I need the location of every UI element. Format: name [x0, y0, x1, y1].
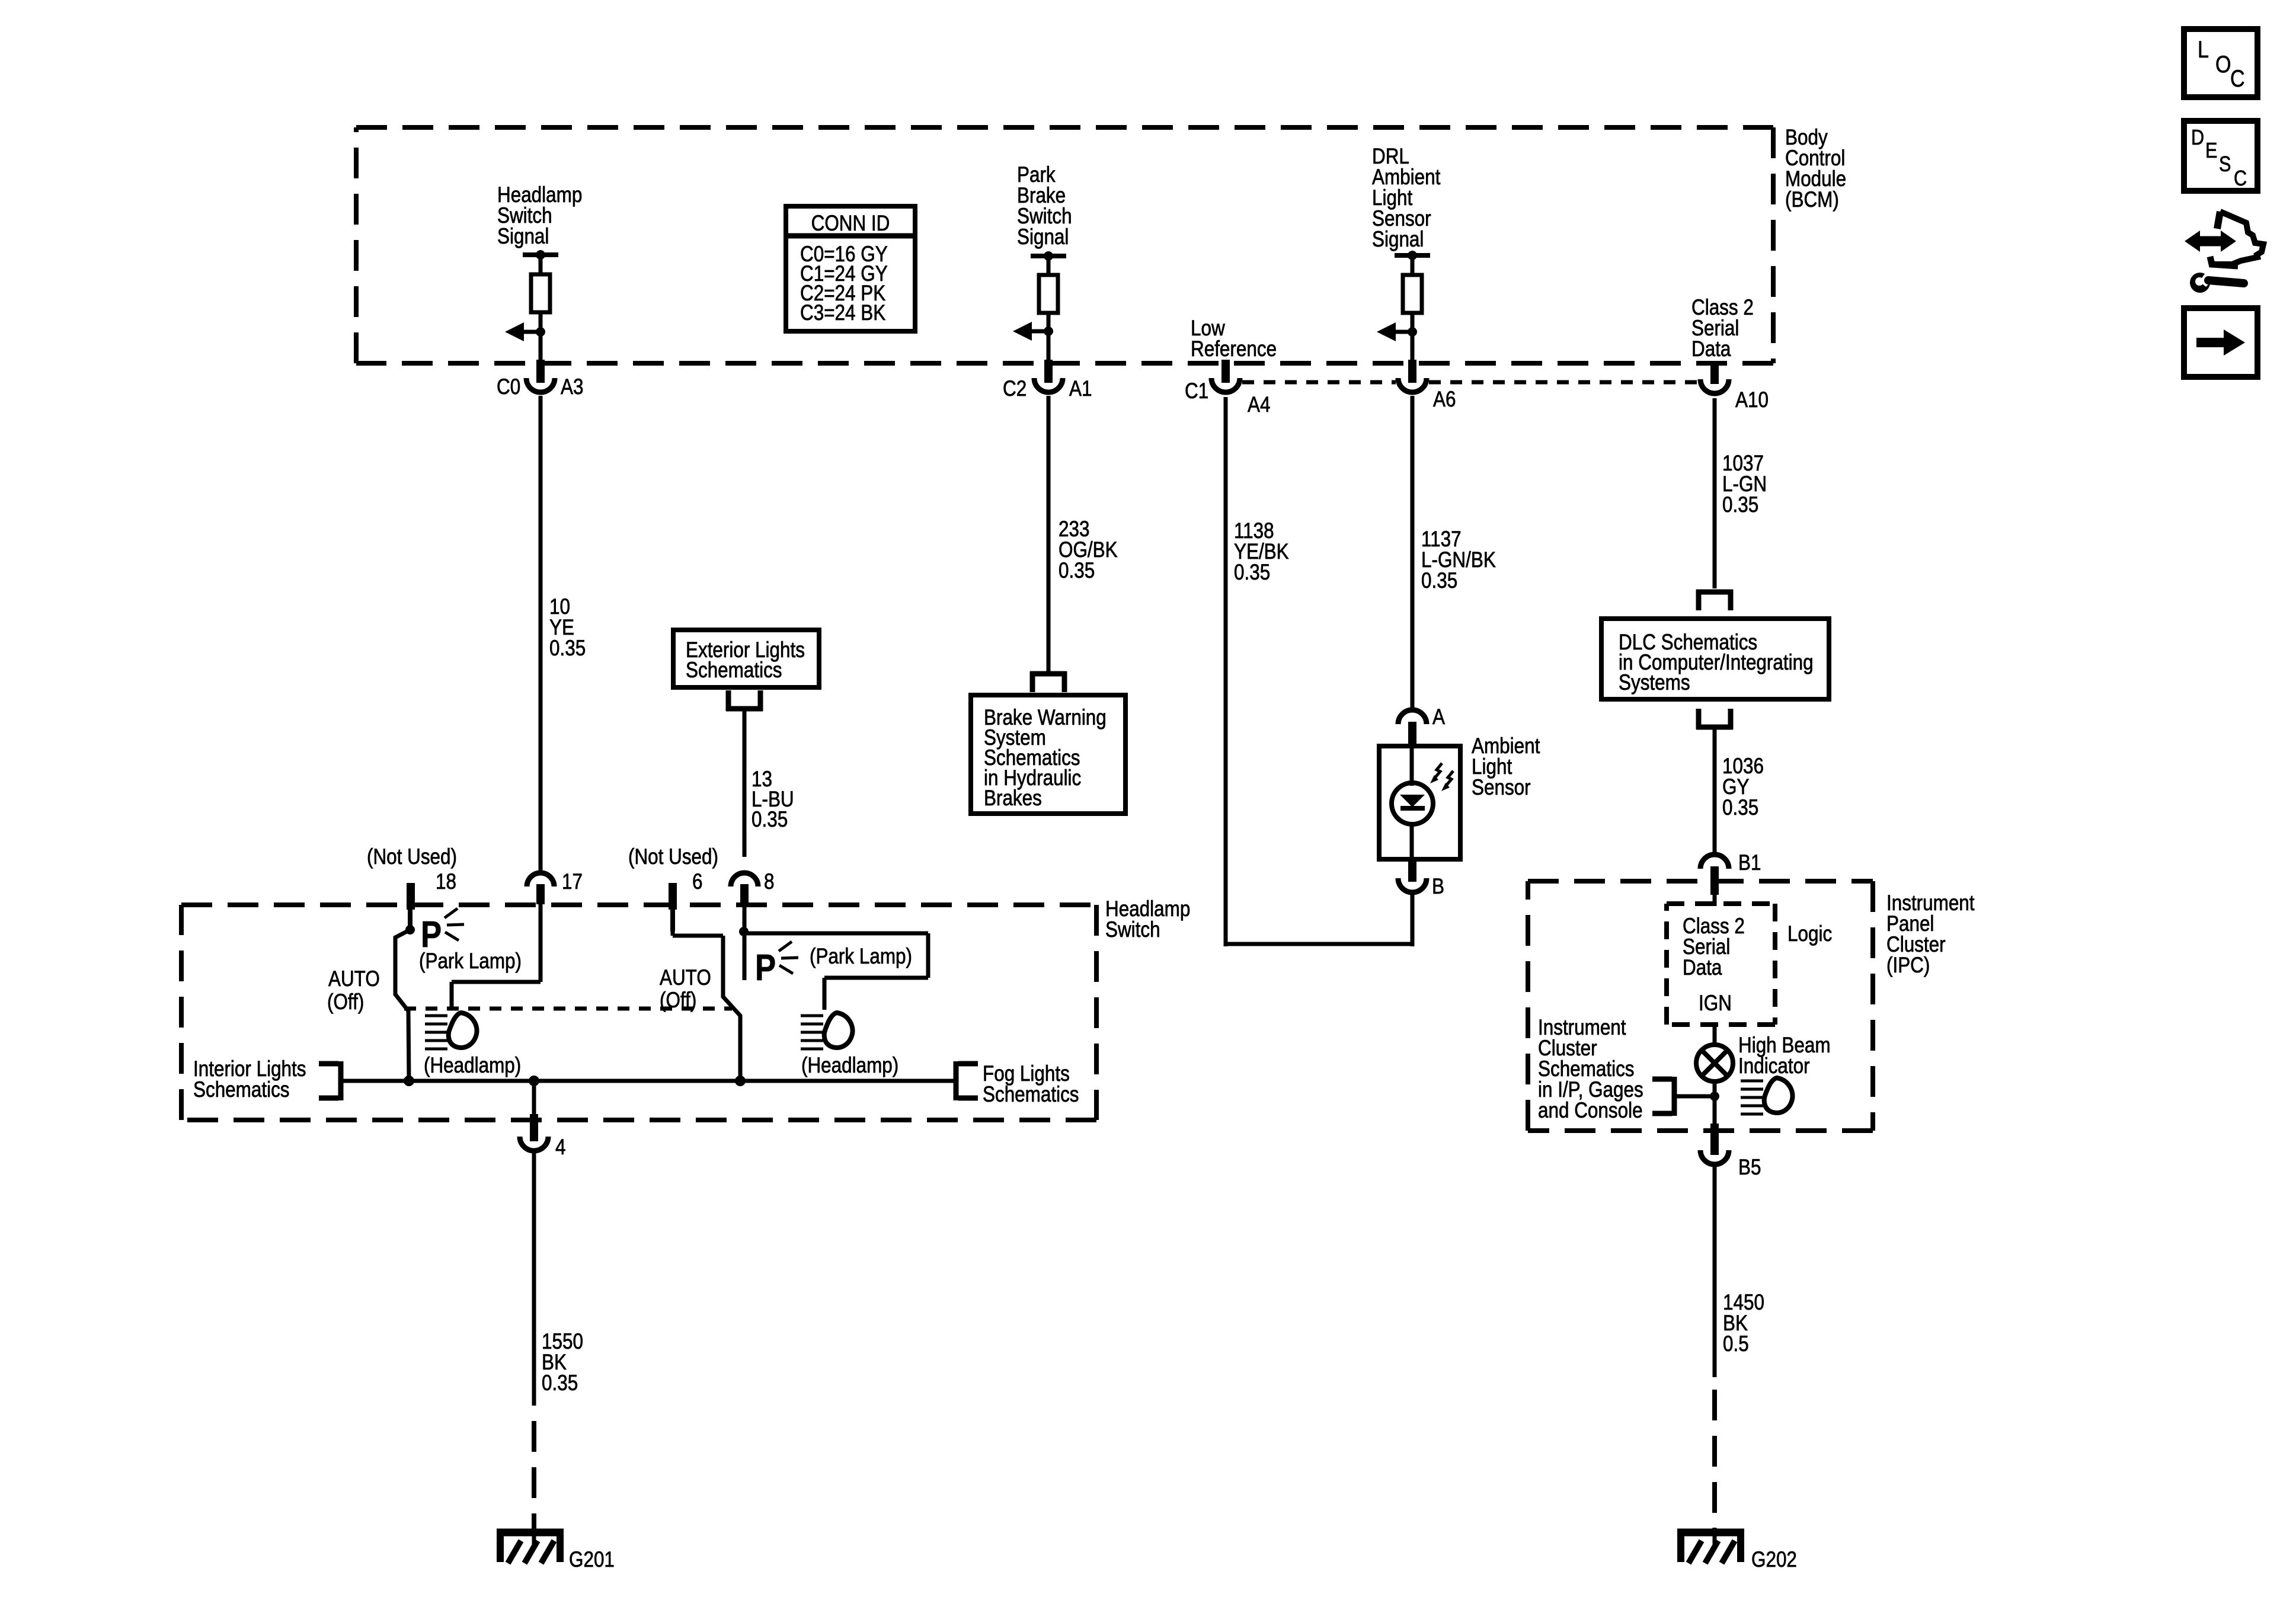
- wire: [1411, 312, 1415, 332]
- BCM module name label: [1785, 126, 1846, 212]
- label A: [1432, 705, 1445, 729]
- connector pin 4: [520, 1114, 548, 1151]
- label A3: [561, 375, 583, 399]
- park lamp P symbol left: [421, 908, 464, 955]
- LOC icon box: [2184, 29, 2257, 97]
- wire 233 OG/BK 0.35: [1047, 396, 1051, 671]
- Fog Lights Schematics label: [983, 1062, 1079, 1107]
- wire logic to indicator: [1713, 1025, 1717, 1046]
- switch arm right pole: [723, 936, 740, 1081]
- svg-text:AUTO: AUTO: [328, 967, 380, 991]
- svg-text:B: B: [1432, 875, 1444, 899]
- wire label 233 OG/BK 0.35: [1059, 517, 1118, 583]
- svg-text:L: L: [2198, 36, 2209, 62]
- Interior Lights Schematics label: [193, 1057, 306, 1102]
- wire 1037 L-GN 0.35: [1713, 398, 1717, 588]
- svg-text:C: C: [2234, 167, 2247, 191]
- svg-text:0.35: 0.35: [1722, 493, 1758, 517]
- label IGN: [1699, 991, 1732, 1016]
- Instrument Cluster Schematics label: [1538, 1016, 1643, 1123]
- label 6: [692, 870, 702, 894]
- wire label 1037 L-GN 0.35: [1722, 452, 1767, 517]
- wire node to B5: [1713, 1096, 1717, 1126]
- wire label 13 L-BU 0.35: [752, 767, 794, 832]
- pin 18 stub: [407, 883, 415, 927]
- IPC name label: [1886, 891, 1975, 978]
- Exterior Lights Schematics text: [686, 638, 805, 683]
- wire pin 8 internal: [743, 906, 747, 980]
- svg-text:(BCM): (BCM): [1785, 188, 1839, 212]
- internal node bar (park brake switch signal): [1031, 251, 1066, 261]
- Exterior Lights Schematics box: [673, 630, 819, 687]
- resistor (park brake switch signal pull-up): [1039, 275, 1058, 313]
- next page arrow icon box: [2184, 308, 2257, 377]
- svg-text:8: 8: [764, 870, 774, 894]
- wire into logic box: [1713, 895, 1717, 906]
- high beam indicator lamp: [1696, 1045, 1733, 1081]
- signal direction arrow (ambient light sensor signal): [1377, 322, 1417, 341]
- svg-text:Logic: Logic: [1787, 922, 1832, 946]
- internal node bar (DRL ambient light sensor signal): [1395, 251, 1430, 260]
- wire: [1047, 331, 1051, 362]
- svg-text:C1: C1: [1185, 379, 1208, 404]
- svg-text:P: P: [755, 948, 776, 988]
- connector B5 (IPC): [1700, 1124, 1729, 1164]
- Class 2 Serial Data label (IPC): [1683, 914, 1745, 980]
- IPC dashed box: [1528, 881, 1873, 1131]
- wire bracket to lamp node: [1674, 1094, 1715, 1099]
- svg-text:Indicator: Indicator: [1738, 1054, 1810, 1078]
- (Headlamp) label left: [424, 1054, 521, 1078]
- label A6: [1433, 388, 1456, 412]
- svg-text:Sensor: Sensor: [1472, 776, 1531, 800]
- off-page bracket fog lights: [956, 1061, 978, 1100]
- (Park Lamp) label right: [810, 945, 912, 969]
- AUTO (Off) label left: [327, 967, 380, 1014]
- DESC icon box: [2184, 121, 2257, 191]
- wire 1450 BK 0.5: [1713, 1167, 1717, 1377]
- ambient light sensor box: [1379, 746, 1460, 859]
- switch pivot dot left: [405, 925, 415, 934]
- Class 2 Serial Data label (BCM): [1691, 296, 1754, 361]
- bus junction dot pin4: [529, 1076, 539, 1086]
- wire label 1450 BK 0.5: [1723, 1291, 1764, 1356]
- connector B (ambient light sensor): [1398, 858, 1427, 892]
- svg-text:(Park Lamp): (Park Lamp): [810, 945, 912, 969]
- wire low reference horizontal: [1226, 942, 1412, 946]
- wire label 1550 BK 0.35: [542, 1330, 583, 1396]
- Ambient Light Sensor label: [1472, 734, 1540, 800]
- wire 1137 L-GN/BK 0.35: [1411, 396, 1415, 709]
- svg-text:17: 17: [562, 870, 583, 894]
- svg-text:S: S: [2219, 153, 2231, 177]
- connector A6: [1398, 360, 1427, 392]
- Headlamp Switch name label: [1105, 897, 1190, 942]
- sensor internal wire: [1410, 746, 1414, 859]
- wire 13 L-BU 0.35: [743, 711, 747, 857]
- svg-text:AUTO: AUTO: [660, 966, 711, 990]
- svg-text:Schematics: Schematics: [983, 1083, 1079, 1107]
- wire: [1047, 313, 1051, 331]
- svg-text:D: D: [2191, 126, 2204, 150]
- svg-text:(Not Used): (Not Used): [367, 845, 457, 869]
- wire 1138 YE/BK 0.35 vertical: [1224, 397, 1228, 946]
- light arrows into photodiode: [1430, 763, 1453, 791]
- label (Not Used) right: [628, 845, 718, 869]
- bus junction dot right arm: [735, 1076, 746, 1086]
- label 4: [555, 1135, 565, 1160]
- signal direction arrow (headlamp switch signal): [505, 322, 545, 341]
- Brake Warning System box: [971, 695, 1125, 814]
- label Logic: [1787, 922, 1832, 946]
- high beam headlamp icon: [1741, 1078, 1793, 1114]
- svg-text:Data: Data: [1683, 956, 1722, 980]
- svg-text:0.35: 0.35: [1059, 559, 1095, 583]
- wire: [1411, 255, 1415, 276]
- off-page bracket interior lights: [319, 1061, 341, 1100]
- Headlamp Switch Signal label: [497, 183, 582, 249]
- svg-text:Schematics: Schematics: [686, 658, 782, 683]
- wire: [1047, 256, 1051, 276]
- svg-text:0.35: 0.35: [1421, 569, 1457, 593]
- connector pin 8: [731, 873, 758, 904]
- dotted line C1 to A6: [1242, 380, 1396, 385]
- off-page bracket to DLC: [1696, 590, 1733, 610]
- svg-text:Reference: Reference: [1191, 337, 1277, 361]
- High Beam Indicator label: [1738, 1033, 1831, 1078]
- svg-text:A3: A3: [561, 375, 583, 399]
- label B: [1432, 875, 1444, 899]
- connector A10: [1700, 361, 1729, 393]
- service tool icon: [2185, 212, 2263, 293]
- svg-text:A: A: [1432, 705, 1445, 729]
- off-page bracket to brake warning: [1030, 671, 1067, 692]
- DLC Schematics box: [1601, 619, 1829, 699]
- park lamp loop wire right: [744, 933, 928, 1010]
- svg-text:and Console: and Console: [1538, 1099, 1643, 1123]
- off-page bracket instrument cluster: [1652, 1077, 1674, 1116]
- svg-text:B5: B5: [1738, 1156, 1761, 1180]
- (Park Lamp) label left: [419, 949, 522, 974]
- wire lamp to node: [1713, 1081, 1717, 1096]
- wire: [539, 312, 543, 332]
- label C0: [497, 375, 520, 399]
- svg-text:Signal: Signal: [1372, 228, 1424, 252]
- ground G202: [1677, 1528, 1744, 1563]
- svg-text:(Park Lamp): (Park Lamp): [419, 949, 522, 974]
- svg-text:Brakes: Brakes: [984, 786, 1042, 811]
- svg-text:(Headlamp): (Headlamp): [424, 1054, 521, 1078]
- svg-text:O: O: [2215, 50, 2231, 77]
- signal direction arrow (park brake switch signal): [1013, 322, 1053, 341]
- headlamp icon left pole: [425, 1013, 477, 1049]
- label A1: [1069, 377, 1092, 401]
- wire label 1138 YE/BK 0.35: [1234, 519, 1289, 585]
- Brake Warning System text: [984, 706, 1107, 811]
- svg-text:E: E: [2205, 139, 2217, 163]
- (Headlamp) label right: [801, 1054, 898, 1078]
- svg-text:0.35: 0.35: [752, 808, 788, 832]
- internal node bar (headlamp switch signal): [523, 250, 558, 260]
- wire label 1036 GY 0.35: [1722, 754, 1764, 820]
- svg-text:B1: B1: [1738, 851, 1761, 875]
- label B5: [1738, 1156, 1761, 1180]
- svg-text:Schematics: Schematics: [193, 1078, 290, 1102]
- label A4: [1248, 393, 1270, 417]
- pin 6 link: [673, 932, 723, 936]
- resistor (ambient light sensor signal pull-up): [1403, 275, 1422, 313]
- svg-text:0.5: 0.5: [1723, 1332, 1749, 1356]
- svg-text:(Headlamp): (Headlamp): [801, 1054, 898, 1078]
- headlamp switch dashed box: [181, 905, 1096, 1120]
- wire: [1411, 332, 1415, 362]
- svg-text:4: 4: [555, 1135, 565, 1160]
- svg-text:G201: G201: [569, 1548, 615, 1572]
- svg-text:Signal: Signal: [497, 225, 549, 249]
- Low Reference label: [1191, 316, 1277, 361]
- svg-text:0.35: 0.35: [549, 636, 586, 661]
- svg-text:18: 18: [436, 870, 456, 894]
- label G201: [569, 1548, 615, 1572]
- wire 1036 GY 0.35: [1713, 729, 1717, 853]
- switch node dot right: [739, 927, 749, 936]
- label A10: [1735, 388, 1769, 412]
- wire 10 YE 0.35: [539, 396, 543, 871]
- svg-text:0.35: 0.35: [1234, 561, 1270, 585]
- resistor (headlamp switch signal pull-up): [531, 274, 550, 312]
- wire: [539, 332, 543, 362]
- bus junction dot left arm: [404, 1076, 414, 1086]
- wire bus to pin 4: [532, 1081, 536, 1116]
- svg-text:A1: A1: [1069, 377, 1092, 401]
- svg-text:Systems: Systems: [1619, 671, 1690, 695]
- connector B1 (IPC): [1700, 854, 1729, 895]
- svg-text:Data: Data: [1691, 337, 1731, 361]
- Park Brake Switch Signal label: [1017, 163, 1072, 249]
- label C1: [1185, 379, 1208, 404]
- ground G201: [497, 1528, 564, 1563]
- wire sensor B return: [1411, 895, 1415, 946]
- svg-text:0.35: 0.35: [1722, 796, 1758, 820]
- svg-text:C3=24 BK: C3=24 BK: [800, 301, 885, 325]
- label (Not Used) left: [367, 845, 457, 869]
- label 18: [436, 870, 456, 894]
- wire label 10 YE 0.35: [549, 595, 586, 661]
- logic inner dashed box: [1667, 904, 1775, 1025]
- switch arm left pole: [395, 930, 410, 1081]
- svg-text:C: C: [2230, 65, 2245, 91]
- svg-text:C2: C2: [1003, 377, 1027, 401]
- switch coupling dotted line: [404, 1007, 732, 1011]
- label 17: [562, 870, 583, 894]
- svg-text:(Not Used): (Not Used): [628, 845, 718, 869]
- svg-text:6: 6: [692, 870, 702, 894]
- DRL Ambient Light Sensor Signal label: [1372, 145, 1441, 252]
- dashed ground wire left: [532, 1421, 536, 1532]
- dashed ground wire right: [1712, 1390, 1717, 1532]
- svg-text:G202: G202: [1751, 1548, 1797, 1572]
- off-page bracket from exterior lights: [726, 690, 763, 711]
- off-page bracket from DLC: [1696, 709, 1733, 729]
- connector C0 pin A3: [526, 360, 555, 392]
- wire: [539, 255, 543, 276]
- svg-text:0.35: 0.35: [542, 1371, 578, 1396]
- svg-text:C0: C0: [497, 375, 520, 399]
- connector A (ambient light sensor): [1398, 710, 1427, 748]
- pin 6 stub: [669, 883, 677, 932]
- svg-text:A4: A4: [1248, 393, 1270, 417]
- wire 1550 BK 0.35: [532, 1153, 536, 1406]
- connector pin 17: [527, 873, 554, 904]
- photodiode (ambient light sensor): [1392, 783, 1433, 824]
- svg-text:(IPC): (IPC): [1886, 953, 1930, 978]
- label 8: [764, 870, 774, 894]
- label C2: [1003, 377, 1027, 401]
- svg-text:CONN ID: CONN ID: [811, 212, 890, 236]
- park lamp P symbol right: [755, 942, 798, 988]
- svg-text:Signal: Signal: [1017, 225, 1069, 249]
- label B1: [1738, 851, 1761, 875]
- wire pin 17 internal: [452, 904, 541, 1010]
- CONN ID table: [786, 206, 915, 331]
- svg-text:(Off): (Off): [327, 990, 364, 1014]
- AUTO (Off) label right: [660, 966, 711, 1013]
- switch common bus wire: [341, 1079, 955, 1083]
- svg-text:Switch: Switch: [1105, 918, 1160, 942]
- connector C2 pin A1: [1034, 360, 1063, 392]
- svg-text:IGN: IGN: [1699, 991, 1732, 1016]
- headlamp icon right pole: [801, 1013, 853, 1049]
- svg-text:A6: A6: [1433, 388, 1456, 412]
- wire label 1137 L-GN/BK 0.35: [1421, 527, 1496, 593]
- BCM module dashed outline box: [356, 127, 1773, 363]
- dotted line A6 to A10: [1429, 380, 1698, 385]
- junction node below lamp: [1710, 1092, 1719, 1101]
- DLC Schematics text: [1619, 631, 1814, 695]
- svg-text:A10: A10: [1735, 388, 1769, 412]
- label G202: [1751, 1548, 1797, 1572]
- connector C1 pin A4: [1211, 360, 1240, 392]
